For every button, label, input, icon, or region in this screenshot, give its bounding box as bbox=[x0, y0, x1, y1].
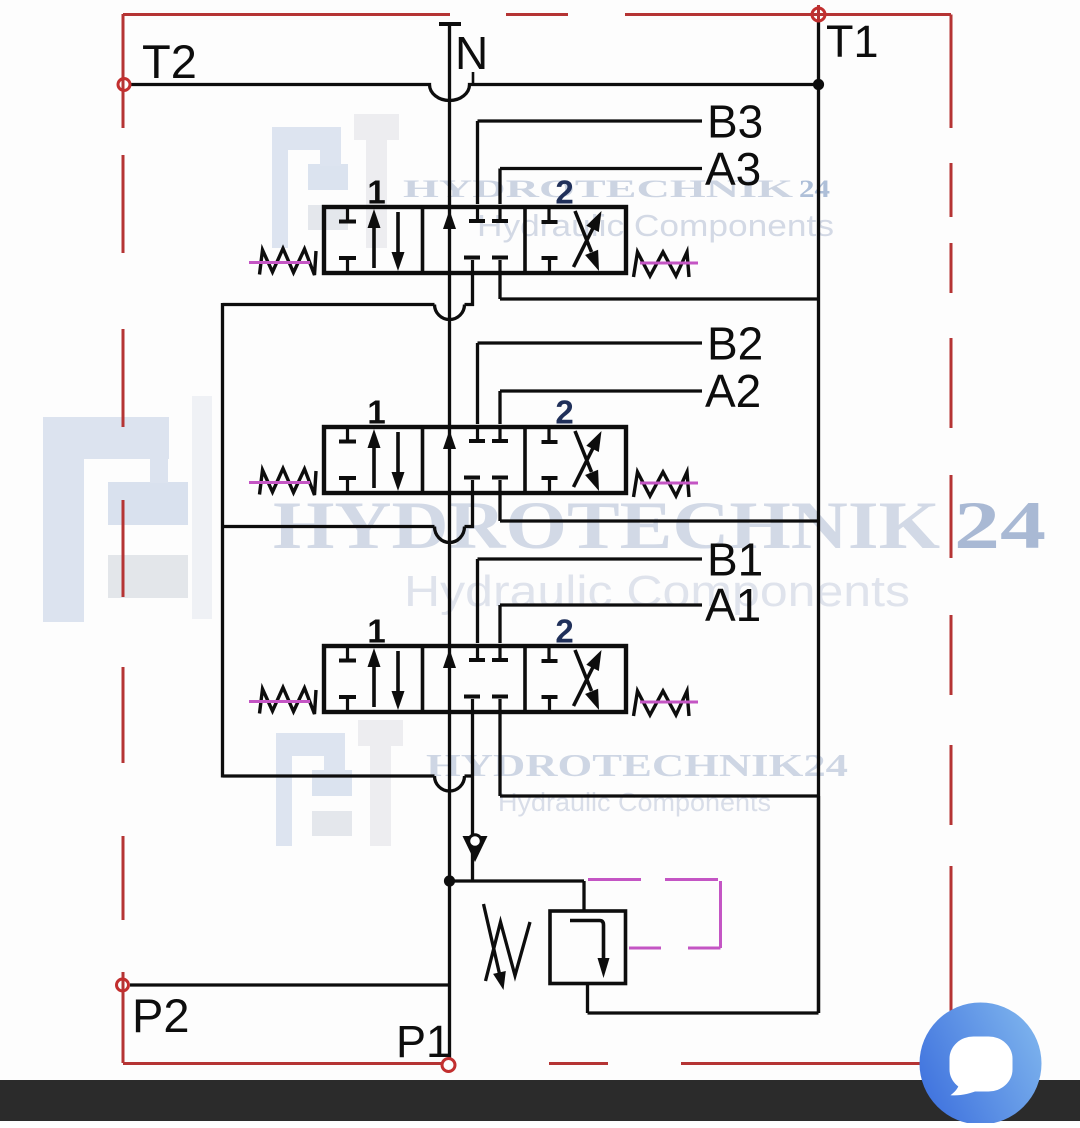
svg-text:Hydraulic Components: Hydraulic Components bbox=[477, 208, 834, 243]
svg-text:B3: B3 bbox=[707, 96, 763, 148]
svg-text:T2: T2 bbox=[142, 35, 197, 88]
svg-text:Hydraulic Components: Hydraulic Components bbox=[404, 567, 910, 616]
svg-text:N: N bbox=[455, 27, 488, 79]
svg-text:A3: A3 bbox=[705, 143, 761, 195]
svg-text:B2: B2 bbox=[707, 318, 763, 370]
svg-text:24: 24 bbox=[799, 176, 831, 203]
svg-text:24: 24 bbox=[954, 487, 1046, 563]
svg-text:HYDROTECHNIK24: HYDROTECHNIK24 bbox=[426, 747, 848, 783]
svg-text:A1: A1 bbox=[705, 579, 761, 631]
svg-text:T1: T1 bbox=[826, 16, 879, 67]
svg-text:P1: P1 bbox=[396, 1016, 451, 1067]
svg-text:P2: P2 bbox=[132, 989, 190, 1042]
svg-text:Hydraulic Components: Hydraulic Components bbox=[498, 787, 771, 817]
svg-text:B1: B1 bbox=[707, 534, 763, 586]
svg-text:A2: A2 bbox=[705, 365, 761, 417]
